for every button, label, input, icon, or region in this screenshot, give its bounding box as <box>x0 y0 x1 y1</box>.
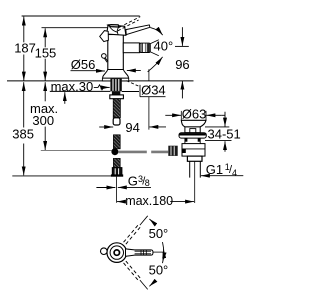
faucet body <box>108 35 124 72</box>
hose end fitting <box>113 118 120 125</box>
label diam 34 <box>139 85 165 96</box>
aerator cone lines <box>150 40 158 44</box>
side wedge knob <box>100 31 109 42</box>
top view lever <box>126 249 154 256</box>
top view centerline <box>153 251 164 253</box>
waste seals <box>185 138 188 141</box>
svg-text:94: 94 <box>125 120 139 135</box>
rod connector <box>168 146 177 156</box>
faucet axis extension below nut <box>116 177 118 203</box>
svg-text:34-51: 34-51 <box>208 126 241 141</box>
top view outer circle <box>107 243 127 263</box>
supply hose mid <box>113 135 120 149</box>
extension line supply end level <box>12 175 111 177</box>
svg-text:187: 187 <box>14 40 36 55</box>
svg-text:300: 300 <box>32 113 54 128</box>
svg-text:8: 8 <box>145 178 150 188</box>
dim 94 <box>148 69 150 81</box>
svg-text:4: 4 <box>232 168 237 178</box>
top view spout circle <box>101 248 108 255</box>
svg-text:G1: G1 <box>206 162 223 177</box>
spout tube <box>123 43 139 53</box>
aerator <box>139 43 150 52</box>
svg-text:Ø56: Ø56 <box>71 57 96 72</box>
faucet head cap <box>107 25 126 35</box>
top view dashed lever down <box>124 261 141 280</box>
40 deg arc lower <box>148 57 163 72</box>
svg-text:G: G <box>128 174 138 189</box>
dim max.180 <box>117 201 125 203</box>
pop-up rod knob <box>102 54 107 59</box>
base flare <box>103 70 129 79</box>
deck bottom line <box>50 90 111 92</box>
threaded shank <box>110 79 121 92</box>
svg-text:Ø63: Ø63 <box>182 106 207 121</box>
supply hose lower <box>113 158 120 167</box>
junction dot <box>111 148 118 155</box>
svg-text:385: 385 <box>12 126 34 141</box>
waste extension lines diam 63 <box>180 111 182 120</box>
svg-text:50°: 50° <box>149 226 169 241</box>
waste neck through basin <box>184 138 186 144</box>
waste flange <box>179 133 206 138</box>
50 deg arc lower <box>149 280 155 286</box>
dim 385 <box>23 82 25 127</box>
dim 34-51 <box>205 126 229 128</box>
waste body <box>182 144 205 157</box>
top view middle circle <box>110 246 123 259</box>
waste neck <box>185 127 200 133</box>
lever handle <box>126 25 150 35</box>
shank locknut <box>110 95 124 99</box>
pull rod to waste <box>118 151 147 154</box>
supply hose upper <box>113 99 120 118</box>
dim 155 <box>44 28 46 80</box>
top view inner circle <box>114 250 119 255</box>
waste locknut <box>187 156 202 161</box>
svg-text:155: 155 <box>35 45 57 60</box>
spout top reference line <box>22 15 140 17</box>
lever top reference line <box>42 27 108 29</box>
svg-text:Ø34: Ø34 <box>141 82 166 97</box>
dim 187 <box>23 17 25 81</box>
dim 96 <box>175 45 189 47</box>
shank thread below deck <box>112 91 120 95</box>
svg-text:max.30: max.30 <box>51 79 94 94</box>
waste tailpipe <box>189 161 191 177</box>
deck top line <box>7 80 194 82</box>
lever raised dashed <box>118 17 141 31</box>
svg-text:50°: 50° <box>149 263 169 278</box>
extension line hose connection level <box>41 150 112 152</box>
svg-text:40°: 40° <box>154 39 174 54</box>
top view dashed lever up <box>124 225 141 244</box>
hose nut G3/8 <box>112 168 122 176</box>
dim max.300 <box>44 82 46 101</box>
waste axis line <box>194 161 196 203</box>
50 deg arc upper <box>149 219 155 225</box>
40 deg arc upper <box>150 28 162 35</box>
waste plug dome <box>181 120 206 127</box>
svg-text:max.180: max.180 <box>125 194 173 208</box>
svg-text:96: 96 <box>175 57 189 72</box>
